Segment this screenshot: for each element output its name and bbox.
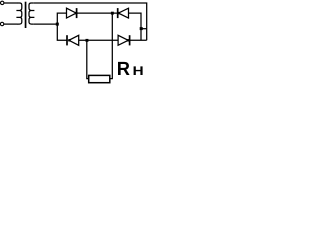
wire secondary bottom feed to left branch	[34, 23, 58, 25]
transformer T1 primary winding	[16, 3, 21, 24]
node junction - output tap	[86, 39, 89, 42]
node junction + output tap	[111, 12, 114, 15]
wire bottom row right end to right edge rail	[130, 39, 147, 41]
wire top row right to right branch corner	[129, 13, 142, 40]
label R	[118, 62, 130, 75]
wire top row middle (+ node)	[77, 12, 118, 14]
wire primary top feed	[4, 2, 17, 4]
label n subscript	[134, 66, 143, 75]
node junction AC2 on right branch	[140, 27, 143, 30]
diode VD2 (top row right, pointing left)	[117, 8, 119, 18]
wire bottom row middle (- node)	[79, 39, 118, 41]
wire - lead down to resistor left side	[87, 40, 89, 78]
wire + lead down to resistor right side	[110, 13, 113, 79]
diode VD4 (bottom row right, pointing right)	[118, 35, 128, 45]
transformer T1 secondary winding	[29, 3, 34, 24]
diode VD3 (bottom row left, pointing left)	[66, 35, 68, 45]
transformer core	[25, 2, 27, 28]
diode VD1 (top row left, pointing right)	[67, 8, 77, 18]
wire primary bottom feed	[4, 23, 17, 25]
terminal circle bottom-left	[0, 22, 3, 25]
wire left branch vertical (AC1)	[57, 13, 67, 40]
wire secondary top rail to right edge, down right side	[34, 3, 147, 40]
node junction AC1 on left branch	[56, 23, 59, 26]
wire connector AC2 branch to right edge rail	[141, 28, 147, 30]
terminal circle top-left	[1, 1, 4, 4]
resistor Rn body	[89, 75, 110, 82]
